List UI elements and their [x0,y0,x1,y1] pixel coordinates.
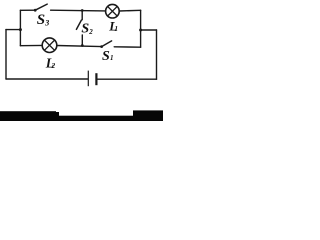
switch S1 blade [102,41,112,47]
wire bottom right (battery to corner) [97,78,156,80]
wire S2 branch lower stub [81,35,83,46]
scan bar bottom middle [58,116,133,121]
scan bar bump [55,112,59,121]
wire inner left vertical [19,10,21,45]
svg-text:1: 1 [115,25,119,33]
node dot bottom of S2 branch [81,44,84,47]
node dot right stub junction [139,29,142,32]
svg-text:1: 1 [110,54,114,62]
node dot top of S2 branch [81,9,84,12]
wire row2 right (S1 to corner) [114,46,140,48]
wire row2 middle (lamp L2 to S1) [57,46,102,47]
wire left stub to node [6,29,20,31]
node dot at S3 pivot [34,9,37,12]
wire right stub to node [141,29,157,31]
battery short plate [95,73,97,85]
lamp L1 [106,4,120,18]
svg-text:2: 2 [51,62,56,70]
node dot left stub junction [19,28,22,31]
wire top segment middle (S3 to lamp L1) [51,9,106,12]
svg-text:S: S [81,22,89,37]
scan bar bottom left [0,111,56,121]
svg-text:S: S [102,49,110,64]
wire row2 left (corner to lamp L2) [20,44,42,46]
scan bar bottom right [133,110,163,121]
node dot at S1 pivot [100,45,103,48]
svg-text:S: S [37,12,45,28]
wire bottom left (to battery) [6,78,88,80]
wire top segment left (corner to S3) [20,9,35,11]
svg-text:3: 3 [44,18,49,27]
wire S2 branch upper stub [81,10,83,19]
wire inner right vertical [140,10,142,47]
switch S2 blade [76,20,81,29]
lamp L2 [42,38,57,53]
svg-text:2: 2 [88,28,93,36]
wire top segment right (lamp L1 to corner) [119,9,140,12]
wire outer right vertical [156,30,158,79]
battery long plate [87,71,89,87]
wire outer left vertical [5,30,7,79]
switch S3 blade [35,4,47,10]
